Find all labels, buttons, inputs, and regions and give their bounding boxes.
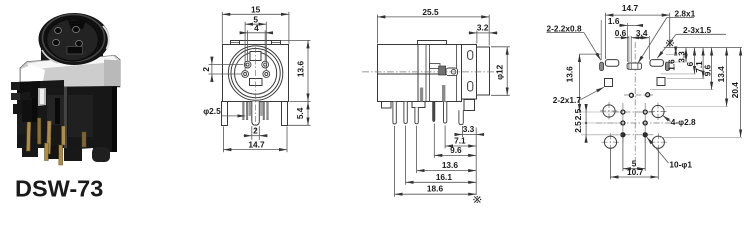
svg-text:φ12: φ12 (494, 64, 504, 80)
svg-text:1.6: 1.6 (666, 59, 676, 71)
svg-text:3.3: 3.3 (677, 51, 687, 63)
svg-text:φ2.5: φ2.5 (203, 106, 221, 116)
svg-text:13.6: 13.6 (442, 160, 459, 170)
svg-text:3.3: 3.3 (463, 124, 475, 134)
svg-text:2.8x1: 2.8x1 (675, 8, 696, 18)
svg-text:1.6: 1.6 (608, 16, 620, 26)
svg-text:3.2: 3.2 (477, 22, 489, 32)
svg-text:20.4: 20.4 (730, 82, 740, 99)
svg-text:2.5: 2.5 (573, 121, 583, 133)
svg-text:4-φ2.8: 4-φ2.8 (671, 117, 696, 127)
svg-text:10-φ1: 10-φ1 (669, 160, 692, 170)
svg-text:3.4: 3.4 (636, 28, 648, 38)
svg-text:4: 4 (254, 23, 259, 33)
svg-text:13.6: 13.6 (296, 61, 306, 78)
svg-text:5.4: 5.4 (295, 107, 305, 119)
svg-text:2: 2 (253, 126, 258, 136)
svg-text:2: 2 (201, 67, 211, 72)
svg-text:13.6: 13.6 (565, 66, 575, 83)
svg-text:14.7: 14.7 (248, 140, 265, 150)
svg-text:14.7: 14.7 (622, 3, 639, 13)
svg-text:15: 15 (251, 5, 261, 15)
svg-text:9.6: 9.6 (702, 64, 712, 76)
svg-text:18.6: 18.6 (427, 184, 444, 194)
svg-text:13.4: 13.4 (716, 66, 726, 83)
svg-text:9.6: 9.6 (450, 145, 462, 155)
svg-text:10.7: 10.7 (627, 167, 644, 177)
svg-text:2-3x1.5: 2-3x1.5 (683, 25, 712, 35)
svg-text:25.5: 25.5 (422, 7, 439, 17)
svg-text:2.5: 2.5 (573, 108, 583, 120)
svg-text:16.1: 16.1 (436, 172, 453, 182)
svg-text:DSW-73: DSW-73 (15, 176, 103, 202)
svg-text:0.6: 0.6 (615, 28, 627, 38)
svg-text:2-2.2x0.8: 2-2.2x0.8 (547, 23, 582, 33)
svg-text:2-2x1.7: 2-2x1.7 (553, 95, 582, 105)
